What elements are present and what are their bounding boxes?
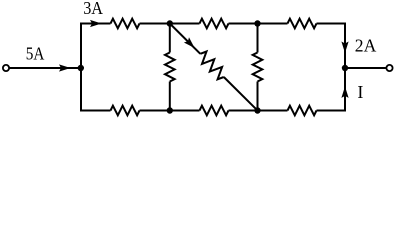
wire: bottom rail segment between R5 and R6 xyxy=(229,110,288,112)
node: left input junction xyxy=(78,65,84,71)
svg-text:3A: 3A xyxy=(83,0,103,18)
resistor diagonal xyxy=(200,52,224,80)
terminal: left input xyxy=(3,65,9,71)
wire: left branch (top-left and bottom-left corners) xyxy=(81,24,111,111)
arrow diagonal-branch current xyxy=(184,37,195,48)
wire: left input lead xyxy=(9,67,81,69)
resistor bottom-left xyxy=(111,106,140,116)
wire: left middle branch upper stub xyxy=(169,24,171,53)
arrow 3A current xyxy=(90,20,102,27)
wire: diagonal upper segment xyxy=(170,24,201,54)
resistor top-middle xyxy=(200,19,229,29)
node: top junction B xyxy=(254,20,260,26)
node: right output junction xyxy=(342,65,348,71)
node: bottom junction C xyxy=(167,107,173,113)
arrow 5A current xyxy=(59,64,71,71)
wire: right middle branch lower stub xyxy=(257,82,259,111)
resistor vertical right xyxy=(253,53,263,82)
svg-text:5A: 5A xyxy=(26,44,45,64)
wire: diagonal lower segment xyxy=(224,77,258,111)
wire: right branch (top-right and bottom-right corners) xyxy=(317,24,346,111)
resistor bottom-right xyxy=(288,106,317,116)
arrow 2A current xyxy=(341,42,348,54)
node: bottom junction D xyxy=(254,107,260,113)
resistor vertical left xyxy=(165,53,175,82)
resistor bottom-middle xyxy=(200,106,229,116)
wire: left middle branch lower stub xyxy=(169,82,171,111)
svg-text:2A: 2A xyxy=(355,35,377,55)
wire: right output lead xyxy=(345,67,386,69)
resistor top-right xyxy=(288,19,317,29)
wire: top rail segment between R1 and R2 xyxy=(140,23,200,25)
terminal: right output xyxy=(386,65,392,71)
arrow I current xyxy=(341,86,348,98)
wire: right middle branch upper stub xyxy=(257,24,259,53)
resistor top-left xyxy=(111,19,140,29)
wire: top rail segment between R2 and R3 xyxy=(229,23,288,25)
wire: bottom rail segment between R4 and R5 xyxy=(140,110,200,112)
node: top junction A xyxy=(167,20,173,26)
svg-text:I: I xyxy=(357,82,363,102)
